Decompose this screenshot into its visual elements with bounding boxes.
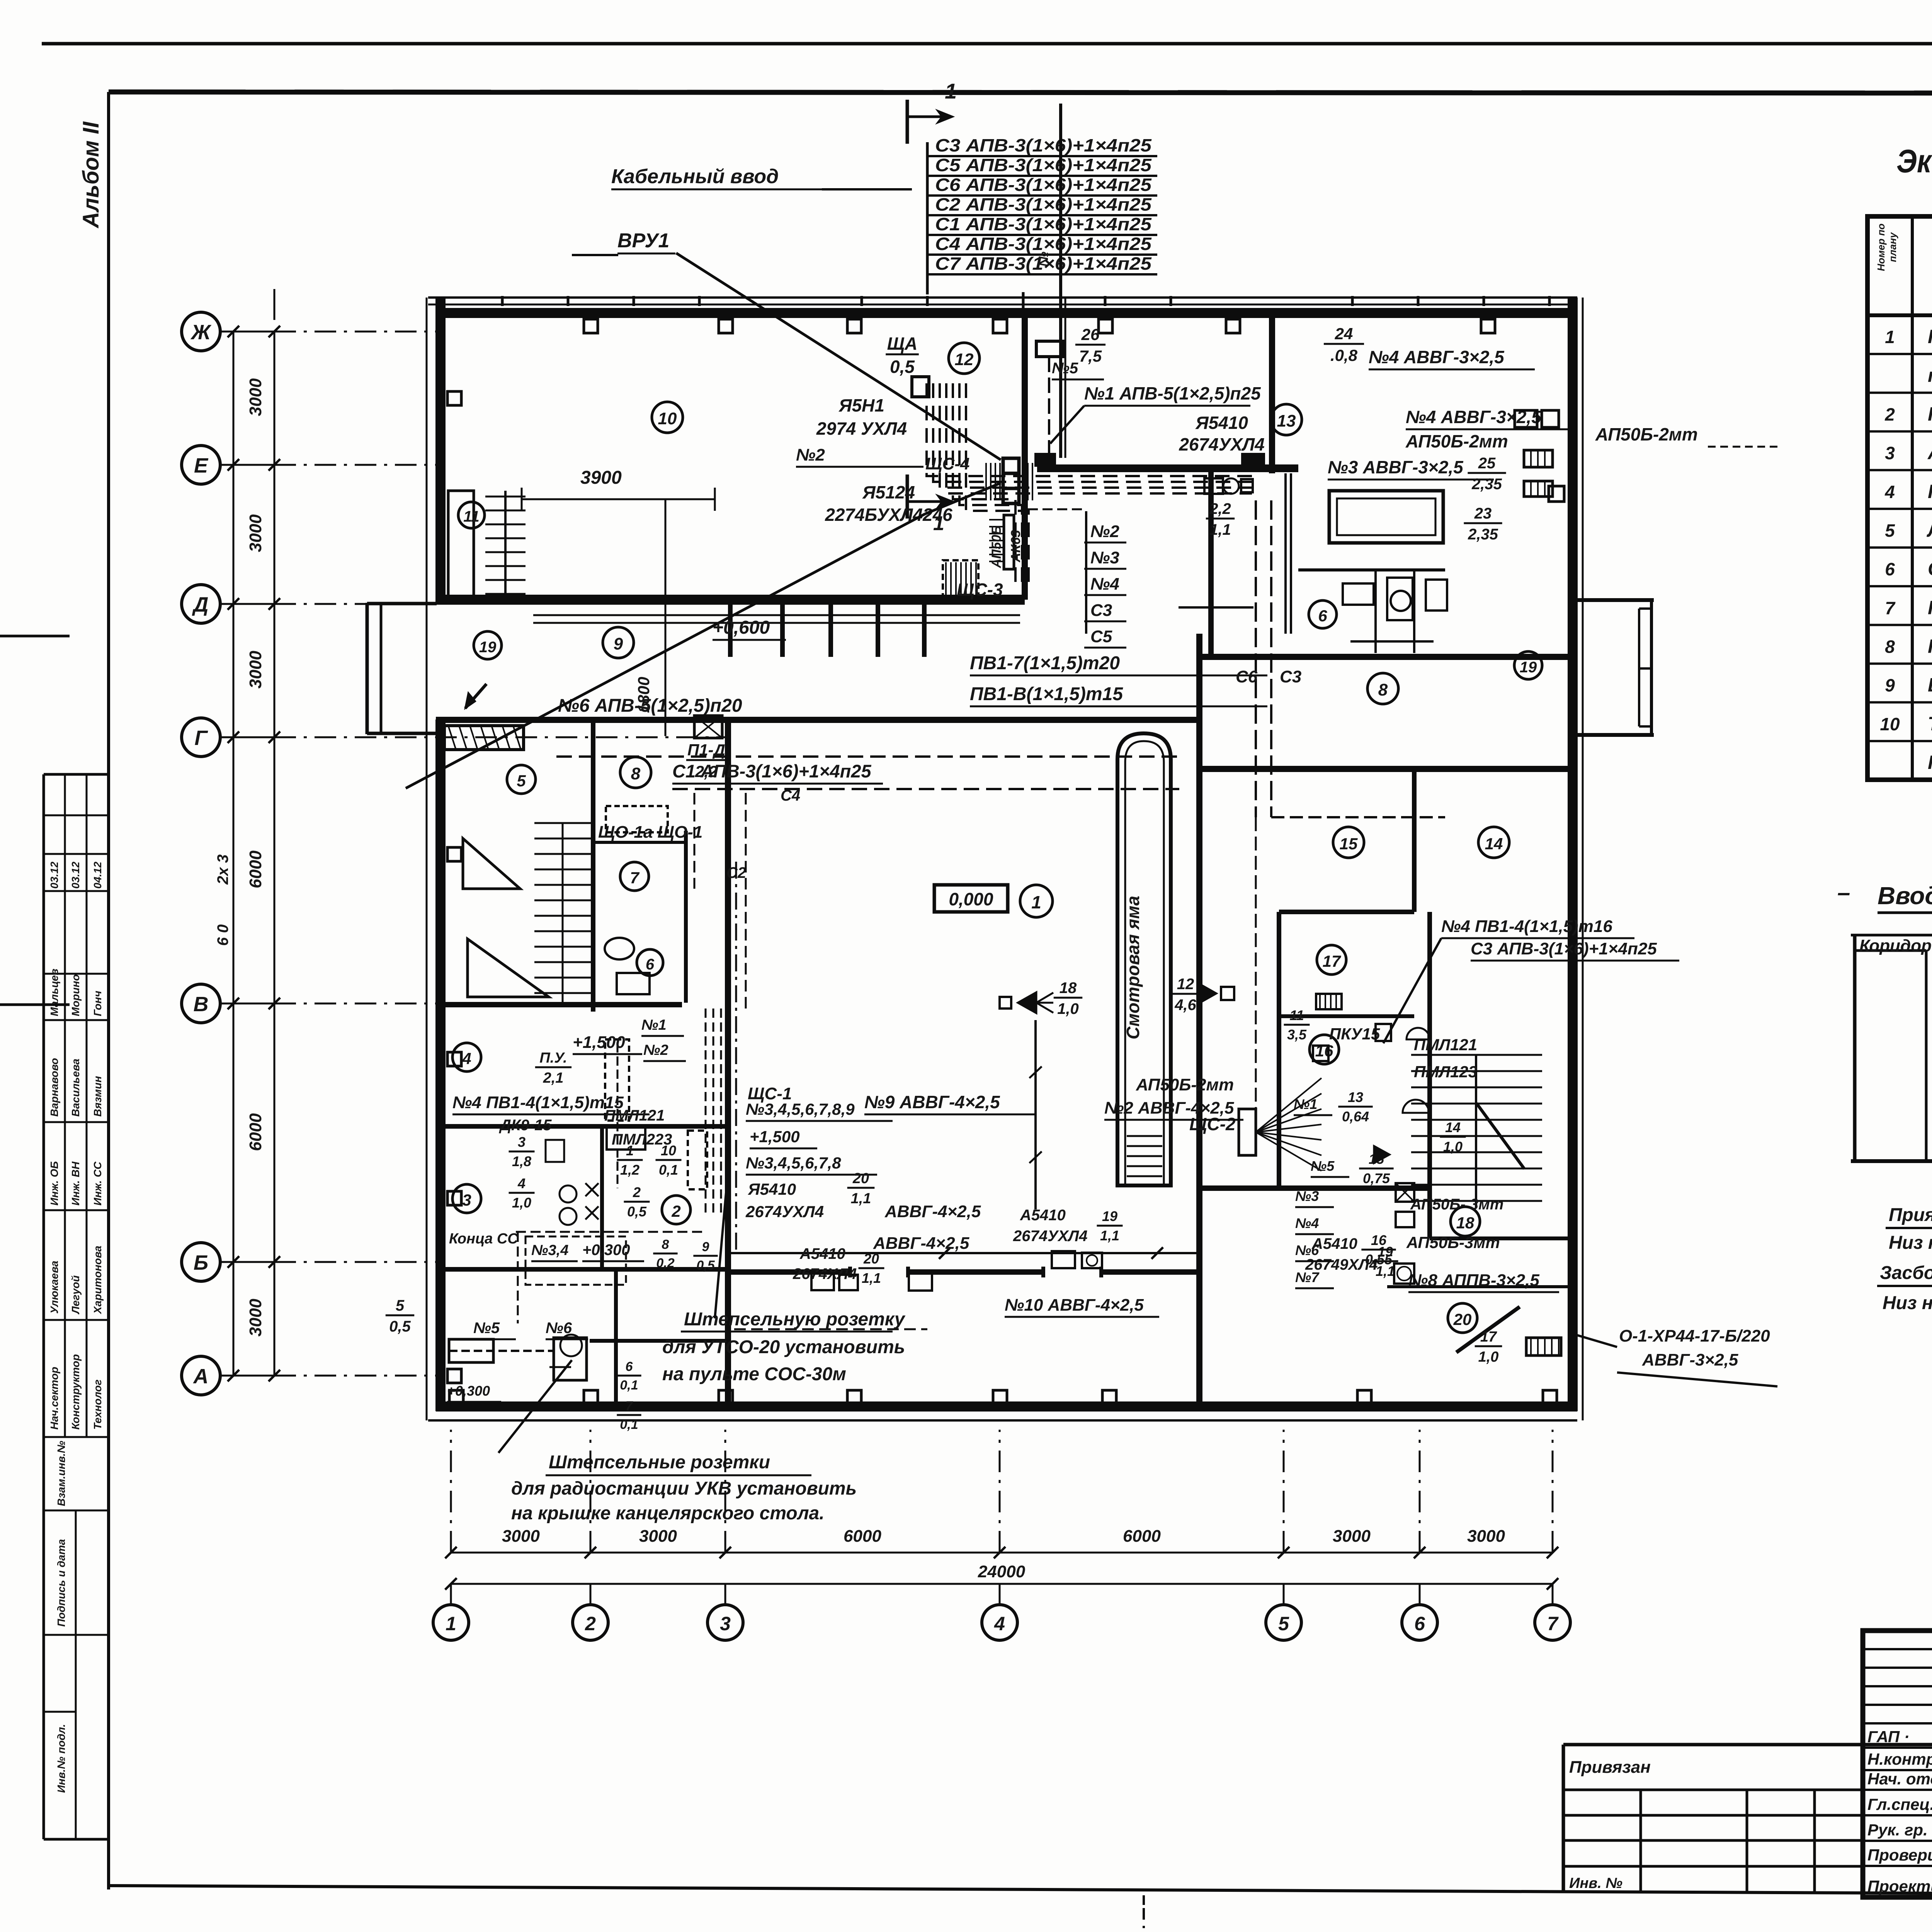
pilaster squares top wall — [584, 319, 598, 333]
labels №3 №4 №6 №7 stack — [1295, 1188, 1334, 1207]
lower-left block: wall below stairs — [436, 1002, 682, 1007]
svg-text:10: 10 — [1880, 714, 1900, 734]
svg-text:С2 АПВ-3(1×6)+1×4п25: С2 АПВ-3(1×6)+1×4п25 — [935, 194, 1152, 214]
svg-text:ДК9-15: ДК9-15 — [499, 1117, 552, 1134]
pilaster squares left wall — [447, 391, 461, 405]
svg-text:1,0: 1,0 — [512, 1195, 531, 1211]
room circle 4 — [452, 1043, 481, 1071]
svg-text:Взам.инв.№: Взам.инв.№ — [55, 1441, 67, 1506]
svg-text:Коридор: Коридор — [1859, 936, 1932, 955]
vertical riser to ЩС-1 — [745, 793, 747, 1009]
plan left wall outer thin line — [426, 298, 428, 1420]
svg-text:0,5: 0,5 — [389, 1318, 411, 1335]
hall gate wall line — [730, 1269, 850, 1275]
svg-text:0,5: 0,5 — [627, 1204, 647, 1219]
plan right wall outer thin line — [1582, 298, 1584, 1420]
svg-text:4: 4 — [994, 1613, 1005, 1634]
svg-text:11: 11 — [463, 508, 480, 525]
stairs room 5 lower ramp wedge — [463, 838, 520, 889]
svg-text:2974 УХЛ4: 2974 УХЛ4 — [816, 418, 907, 439]
svg-text:+1,500: +1,500 — [750, 1128, 800, 1146]
label ЩА/0,5 — [886, 333, 919, 377]
room circle 2 — [662, 1196, 690, 1224]
svg-text:ГАП ·: ГАП · — [1867, 1728, 1910, 1746]
svg-text:3: 3 — [1885, 443, 1895, 463]
fraction 16/0,55 — [1361, 1232, 1396, 1267]
label +1,500 (2) — [750, 1128, 817, 1148]
svg-text:6000: 6000 — [1123, 1527, 1161, 1546]
diagonal leader bottom-left to radio sockets text — [498, 1360, 572, 1453]
labels ПВ1-7 ПВ1-В — [970, 653, 1267, 675]
svg-text:АВВГ-4×2,5: АВВГ-4×2,5 — [873, 1234, 969, 1253]
svg-text:6000: 6000 — [246, 850, 265, 888]
entrance arrow — [465, 684, 486, 708]
bottom rooms partition vertical — [614, 1269, 618, 1406]
svg-text:ПМЛ121: ПМЛ121 — [604, 1107, 665, 1124]
axis circle В — [182, 984, 220, 1023]
device П1-Д 2,2 — [694, 716, 722, 738]
svg-text:24000: 24000 — [978, 1562, 1026, 1581]
svg-text:20: 20 — [1453, 1310, 1472, 1328]
svg-text:№5: №5 — [1311, 1158, 1335, 1174]
svg-text:Санузел: Санузел — [1928, 558, 1932, 580]
incoming cable line — [1059, 104, 1062, 458]
svg-text:20: 20 — [863, 1251, 879, 1267]
svg-text:П.У.: П.У. — [539, 1050, 567, 1066]
svg-text:2: 2 — [633, 1184, 641, 1200]
svg-text:№3,4,5,6,7,8,9: №3,4,5,6,7,8,9 — [746, 1100, 855, 1118]
fraction 24/0,8 — [1324, 325, 1364, 364]
label №4 ПВ1-4(1×1,5)т16 (right column) — [1441, 917, 1634, 938]
svg-text:Проверил: Проверил — [1867, 1846, 1932, 1864]
label ВРУ1 — [617, 230, 675, 253]
stairs 18 treads — [1411, 1054, 1542, 1056]
svg-text:18: 18 — [1060, 980, 1077, 997]
svg-text:Низ на отм.–0,700: Низ на отм.–0,700 — [1889, 1233, 1932, 1253]
fractions 25/2,35 23/2,35 — [1468, 455, 1506, 493]
label №1 and 13/0,64 — [1294, 1096, 1332, 1115]
upper block A bottom wall — [436, 595, 1025, 605]
room circle 12 — [949, 343, 980, 374]
axis circle 2 — [573, 1605, 608, 1640]
svg-text:Е: Е — [194, 454, 209, 477]
svg-text:1,1: 1,1 — [1209, 521, 1231, 538]
hall left wall — [725, 720, 731, 1406]
room bottom-left devices — [449, 1339, 493, 1362]
svg-text:0,2: 0,2 — [656, 1256, 674, 1270]
room 17 left wall — [1277, 912, 1281, 1188]
svg-text:0,1: 0,1 — [620, 1378, 638, 1393]
svg-text:Я5410: Я5410 — [748, 1180, 796, 1198]
svg-text:14: 14 — [1445, 1119, 1461, 1135]
left signature strip frame — [43, 774, 45, 1839]
label №9 АВВГ-4×2,5 (hall) — [864, 1092, 1000, 1114]
svg-text:ВРУ1: ВРУ1 — [617, 230, 669, 252]
svg-text:11: 11 — [1289, 1007, 1304, 1023]
dash line hall bottom — [734, 1328, 927, 1330]
wire elbows bundle from ВРУ1 zone — [927, 383, 1252, 476]
svg-text:1: 1 — [626, 1143, 634, 1158]
labels №5 №6 bottom-left — [473, 1320, 516, 1339]
axis circle 1 — [433, 1605, 469, 1640]
svg-text:АП50Б-3мт: АП50Б-3мт — [1406, 1233, 1500, 1252]
label П.У./2,1 — [535, 1050, 571, 1086]
block A/B divider wall — [1022, 313, 1028, 600]
svg-text:№1: №1 — [1294, 1096, 1317, 1112]
label С1 АПВ-3(1×6)+1×4п25 — [672, 761, 883, 784]
svg-text:04.12: 04.12 — [92, 862, 104, 889]
room circle 19 left — [474, 631, 502, 659]
svg-text:25: 25 — [1478, 455, 1496, 472]
svg-text:+0,300: +0,300 — [582, 1242, 630, 1259]
bottom axis dimension line (outer, 24000) — [451, 1583, 1553, 1585]
svg-text:8: 8 — [1885, 636, 1895, 656]
svg-text:С5 АПВ-3(1×6)+1×4п25: С5 АПВ-3(1×6)+1×4п25 — [935, 155, 1152, 175]
svg-text:2274БУХЛ4246: 2274БУХЛ4246 — [825, 505, 952, 525]
wall left of rooms 13 block — [1208, 471, 1214, 659]
svg-text:16: 16 — [1371, 1232, 1387, 1248]
fraction 5/0,5 outside wall — [386, 1297, 414, 1335]
label +0,300 bottom-left — [447, 1383, 501, 1402]
svg-text:С1 АПВ-3(1×6)+1×4п25: С1 АПВ-3(1×6)+1×4п25 — [935, 214, 1152, 234]
svg-text:№3: №3 — [1090, 548, 1119, 567]
svg-text:6: 6 — [626, 1359, 633, 1374]
section cut mark 1 (top) — [906, 100, 909, 144]
room circle 3 — [452, 1184, 481, 1213]
pit bottom hatch — [1127, 1135, 1162, 1137]
svg-text:№3: №3 — [1295, 1188, 1319, 1204]
stair hatch room 11 shaft — [485, 496, 526, 498]
svg-text:6000: 6000 — [246, 1113, 265, 1151]
svg-text:№3,4,5,6,7,8: №3,4,5,6,7,8 — [746, 1154, 841, 1172]
fraction 20/1,1 and АВВГ-4×2,5 — [847, 1170, 875, 1207]
label +0,600 — [713, 617, 786, 640]
inspection pit Смотровая яма — [1117, 733, 1171, 1185]
svg-text:Конструктор: Конструктор — [70, 1354, 82, 1430]
svg-text:6: 6 — [1318, 607, 1327, 625]
svg-text:№4 АВВГ-3×2,5: №4 АВВГ-3×2,5 — [1369, 347, 1505, 367]
bundle across corridor 8 — [1271, 816, 1445, 818]
inner frame bottom — [109, 1886, 1932, 1896]
room circle 7 — [620, 862, 649, 891]
plan bottom wall outer line — [428, 1419, 1577, 1422]
ЩС-2 cabinet and fan of wires — [1239, 1109, 1256, 1155]
svg-text:Д: Д — [192, 593, 209, 616]
svg-text:1,1: 1,1 — [862, 1270, 881, 1286]
right tambour 19 — [1573, 598, 1654, 602]
svg-text:2х 3: 2х 3 — [214, 854, 231, 885]
svg-text:Б: Б — [194, 1251, 208, 1274]
axis circle 3 — [707, 1605, 743, 1640]
section: floor slab line — [1851, 1159, 1932, 1163]
svg-text:12: 12 — [1177, 976, 1194, 993]
svg-text:Харитонова: Харитонова — [92, 1246, 104, 1315]
svg-text:+0,600: +0,600 — [713, 617, 770, 638]
svg-text:3000: 3000 — [639, 1527, 677, 1546]
svg-text:12: 12 — [955, 350, 974, 369]
svg-text:Я5124: Я5124 — [862, 482, 915, 502]
svg-text:Штепсельную розетку: Штепсельную розетку — [684, 1309, 906, 1330]
svg-text:1,0: 1,0 — [1443, 1139, 1463, 1155]
svg-text:14: 14 — [1485, 835, 1503, 853]
plan top wall window band — [428, 296, 1577, 299]
svg-text:№4 ПВ1-4(1×1,5)т15: №4 ПВ1-4(1×1,5)т15 — [452, 1093, 624, 1112]
explication table 1 outer frame — [1867, 216, 1932, 780]
svg-text:ЩС-4: ЩС-4 — [925, 454, 969, 473]
svg-text:Ввод кабелей из траншеи в зд: Ввод кабелей из траншеи в здание. Разрез… — [1878, 882, 1932, 910]
svg-text:0,000: 0,000 — [949, 889, 993, 909]
room circle 8 left — [620, 757, 651, 788]
svg-text:Вязмин: Вязмин — [92, 1076, 104, 1117]
svg-text:0,5: 0,5 — [696, 1258, 715, 1273]
svg-text:№1: №1 — [641, 1017, 667, 1033]
room 16/17 divider wall — [1279, 1014, 1414, 1018]
ЩА cabinet box — [912, 377, 929, 397]
axis circle 6 — [1402, 1605, 1437, 1640]
bottom hall cable line — [730, 1252, 1199, 1254]
svg-text:Пункт связи части: Пункт связи части — [1928, 403, 1932, 425]
label №4 ПВ1-4(1×1,5)т15 — [452, 1093, 650, 1114]
inner frame left — [107, 92, 110, 1889]
svg-text:2,2: 2,2 — [695, 762, 718, 781]
room circle 8 right — [1367, 673, 1398, 704]
dashed room 3 connections — [516, 1231, 703, 1233]
fractions 6/0,1 7/0,1 — [617, 1359, 641, 1393]
svg-text:пожарной техники: пожарной техники — [1928, 364, 1932, 386]
svg-text:.0,8: .0,8 — [1330, 346, 1358, 364]
svg-text:3: 3 — [462, 1191, 471, 1209]
plan right wall — [1568, 298, 1578, 1411]
svg-text:ПВ1-В(1×1,5)т15: ПВ1-В(1×1,5)т15 — [970, 684, 1123, 704]
svg-text:С4 АПВ-3(1×6)+1×4п25: С4 АПВ-3(1×6)+1×4п25 — [935, 234, 1152, 254]
axis circle 4 — [982, 1605, 1017, 1640]
axis circle Ж — [182, 312, 220, 351]
svg-text:Аппаратная: Аппаратная — [1927, 442, 1932, 464]
svg-text:8: 8 — [631, 764, 641, 783]
svg-text:№7: №7 — [1295, 1269, 1320, 1285]
svg-text:Конца СС: Конца СС — [449, 1231, 518, 1247]
svg-text:19: 19 — [1520, 659, 1537, 676]
svg-text:Альбом II: Альбом II — [78, 121, 104, 229]
svg-text:17: 17 — [1323, 952, 1341, 970]
svg-text:6000: 6000 — [844, 1527, 881, 1546]
svg-text:03.12: 03.12 — [70, 862, 82, 889]
svg-text:20: 20 — [852, 1170, 869, 1187]
svg-text:Гл.спец.: Гл.спец. — [1867, 1795, 1932, 1813]
ЩС-1 cabinet cluster in room 2 — [688, 1131, 707, 1189]
svg-text:4: 4 — [1884, 482, 1895, 502]
svg-text:26: 26 — [1081, 325, 1100, 344]
svg-text:10: 10 — [658, 409, 677, 428]
svg-text:Инж. ВН: Инж. ВН — [70, 1162, 82, 1206]
svg-text:17: 17 — [1480, 1329, 1497, 1345]
ЩС-4 hatched cabinet — [1004, 515, 1014, 569]
svg-text:7: 7 — [626, 1399, 634, 1413]
svg-text:ПМЛ123: ПМЛ123 — [1414, 1063, 1477, 1081]
svg-text:Комната отдыха: Комната отдыха — [1928, 481, 1932, 502]
svg-text:плану: плану — [1887, 232, 1898, 262]
bath partition (room 6 lower) — [684, 831, 688, 1003]
left axis dimension line (inner) — [274, 332, 276, 1376]
dimension 3900 in room 10 — [522, 498, 715, 500]
diagonal leader line to lower-left — [406, 514, 925, 788]
svg-text:1,0: 1,0 — [1057, 1000, 1079, 1017]
svg-text:19: 19 — [1102, 1208, 1117, 1224]
svg-text:№5: №5 — [1052, 360, 1078, 377]
svg-text:Экспликация помещений: Экспликация помещений — [1896, 143, 1932, 179]
section: top wall line — [1851, 934, 1932, 937]
svg-text:С3: С3 — [1090, 601, 1112, 620]
svg-text:Ж: Ж — [190, 321, 212, 344]
svg-text:Привязан: Привязан — [1569, 1758, 1651, 1777]
svg-text:2674УХЛ4: 2674УХЛ4 — [745, 1202, 824, 1221]
label №3,4,5,6,7,8 — [746, 1154, 877, 1175]
left entry porch (tambour 19) — [366, 603, 369, 734]
small wall boxes right block — [1515, 410, 1537, 427]
entrance ramp hatch at axis Г — [444, 726, 524, 750]
fraction 14/1,0 — [1440, 1119, 1466, 1155]
svg-text:6 0: 6 0 — [214, 924, 231, 946]
svg-text:АП50Б-2мт: АП50Б-2мт — [1595, 424, 1698, 444]
svg-text:№3,4: №3,4 — [531, 1242, 568, 1259]
svg-text:Приточная Венткамера: Приточная Венткамера — [1928, 752, 1932, 773]
room circle 6 upper — [1309, 600, 1337, 628]
fraction 11/3,5 — [1284, 1007, 1310, 1043]
svg-text:А5410: А5410 — [799, 1245, 845, 1262]
svg-text:9: 9 — [702, 1240, 709, 1254]
axis circle Г — [182, 718, 220, 757]
svg-text:С3 АПВ-3(1×6)+1×4п25: С3 АПВ-3(1×6)+1×4п25 — [1471, 939, 1657, 958]
svg-text:2,35: 2,35 — [1468, 526, 1498, 543]
svg-text:Гонч: Гонч — [92, 991, 104, 1016]
svg-text:Вестибюль: Вестибюль — [1928, 674, 1932, 696]
section cut mark 1 (lower) — [906, 474, 909, 519]
room circle 19 right — [1514, 651, 1542, 679]
svg-text:№3 АВВГ-3×2,5: №3 АВВГ-3×2,5 — [1328, 457, 1464, 477]
svg-text:Улюкаева: Улюкаева — [48, 1261, 60, 1314]
left edge fold marks — [0, 635, 70, 638]
svg-text:24: 24 — [1335, 325, 1353, 343]
svg-text:03.12: 03.12 — [48, 862, 60, 889]
room circle 16 — [1310, 1035, 1339, 1064]
circuit С1 line — [672, 788, 1179, 790]
svg-text:Г: Г — [194, 726, 208, 750]
riser stack vertical line — [1085, 511, 1087, 634]
fractions 8/0,2 9/0,5 — [653, 1237, 677, 1270]
svg-text:№6: №6 — [1295, 1242, 1319, 1258]
svg-text:С5: С5 — [1090, 627, 1112, 646]
svg-text:1: 1 — [446, 1613, 456, 1634]
room circle 15 — [1333, 827, 1364, 858]
svg-text:С6: С6 — [1236, 667, 1258, 686]
svg-text:№8 АППВ-3×2,5: №8 АППВ-3×2,5 — [1408, 1271, 1539, 1290]
svg-text:3000: 3000 — [1467, 1527, 1505, 1546]
svg-text:3000: 3000 — [502, 1527, 540, 1546]
svg-text:Проектир.: Проектир. — [1867, 1877, 1932, 1895]
svg-text:7: 7 — [1547, 1613, 1559, 1634]
svg-text:9: 9 — [614, 634, 623, 653]
room 17 top wall — [1279, 910, 1414, 914]
vertical dash riser С2 — [694, 793, 696, 889]
svg-text:+1,500: +1,500 — [573, 1033, 625, 1052]
svg-text:С6 АПВ-3(1×6)+1×4п25: С6 АПВ-3(1×6)+1×4п25 — [935, 175, 1152, 195]
svg-text:Подпись и дата: Подпись и дата — [55, 1539, 67, 1627]
svg-text:Смотровая яма: Смотровая яма — [1123, 896, 1143, 1039]
svg-text:3900: 3900 — [580, 468, 622, 488]
svg-text:2,1: 2,1 — [543, 1070, 564, 1086]
section: corridor left wall — [1853, 935, 1857, 1161]
title block outer — [1863, 1631, 1932, 1897]
label №4 АВВГ-3×2,5 (top) — [1369, 347, 1535, 369]
svg-text:№2: №2 — [643, 1042, 668, 1058]
bottom axis dimension line (inner) — [451, 1552, 1553, 1554]
axis circle Д — [182, 585, 220, 623]
svg-text:ПКУ15: ПКУ15 — [1329, 1025, 1380, 1043]
fraction 2,2/1,1 — [1206, 500, 1235, 538]
plan top wall — [436, 308, 1577, 318]
equipment cluster room 2 symbols — [560, 1185, 577, 1202]
svg-text:на крышке канцелярского стол: на крышке канцелярского стола. — [511, 1503, 825, 1524]
plan left wall upper — [435, 298, 446, 604]
fraction 17/1,0 room 20 — [1475, 1329, 1502, 1365]
svg-text:6: 6 — [646, 956, 655, 973]
lower-left rooms divider 4/3 — [436, 1124, 728, 1129]
axis circle Е — [182, 446, 220, 484]
svg-text:3: 3 — [720, 1613, 731, 1634]
sheet outer trim border top — [42, 42, 1932, 46]
svg-text:№5: №5 — [473, 1320, 500, 1337]
room circle 20 — [1448, 1303, 1477, 1333]
svg-text:Кабельный ввод: Кабельный ввод — [611, 165, 779, 188]
explication table 1 header column split — [1911, 216, 1914, 780]
inner frame top (thick) — [109, 92, 1932, 94]
svg-text:Штепсельные розетки: Штепсельные розетки — [549, 1452, 770, 1473]
svg-text:№9 АВВГ-4×2,5: №9 АВВГ-4×2,5 — [864, 1092, 1000, 1112]
svg-text:для УТСО-20 установить: для УТСО-20 установить — [662, 1337, 905, 1357]
label №3 АВВГ-3×2,5 — [1328, 457, 1494, 480]
svg-text:О-1-ХР44-17-Б/220: О-1-ХР44-17-Б/220 — [1619, 1327, 1770, 1345]
svg-text:6: 6 — [1885, 559, 1895, 579]
svg-text:0,1: 0,1 — [620, 1417, 638, 1432]
axis circle Б — [182, 1243, 220, 1281]
room 20 diagonal wall — [1456, 1307, 1520, 1352]
svg-text:В: В — [194, 993, 209, 1016]
svg-text:№2 АВВГ-4×2,5: №2 АВВГ-4×2,5 — [1104, 1099, 1234, 1117]
svg-text:1: 1 — [1031, 892, 1041, 912]
labels №1 №2 room 4 — [641, 1017, 684, 1036]
svg-text:Тепловой узел ввода.: Тепловой узел ввода. — [1928, 713, 1932, 735]
svg-text:Засбоцементные трубы Ф100: Засбоцементные трубы Ф100 — [1880, 1263, 1932, 1283]
svg-text:0,1: 0,1 — [659, 1162, 678, 1178]
block 13 bottom wall — [1199, 654, 1573, 660]
svg-text:5: 5 — [396, 1297, 405, 1314]
fractions room 3 cluster — [509, 1134, 535, 1169]
svg-text:1,1: 1,1 — [851, 1190, 871, 1207]
labels №3,4 +0,300 — [531, 1242, 578, 1261]
svg-text:АП50Б: АП50Б — [989, 526, 1004, 568]
svg-text:Помещение спуска по столбам: Помещение спуска по столбам — [1928, 597, 1932, 618]
svg-text:Номер по: Номер по — [1875, 223, 1887, 271]
axis circle А — [182, 1356, 220, 1395]
svg-text:15: 15 — [1340, 835, 1358, 853]
svg-text:Инж. СС: Инж. СС — [92, 1162, 104, 1206]
divider room 15/14 — [1412, 769, 1417, 912]
svg-text:Нач. отд.: Нач. отд. — [1867, 1770, 1932, 1788]
room circle 17 — [1317, 945, 1346, 975]
svg-text:Рук. гр.: Рук. гр. — [1867, 1821, 1928, 1839]
short bundle ВРУ1 to cable wall — [1028, 509, 1082, 510]
svg-text:23: 23 — [1474, 505, 1492, 522]
